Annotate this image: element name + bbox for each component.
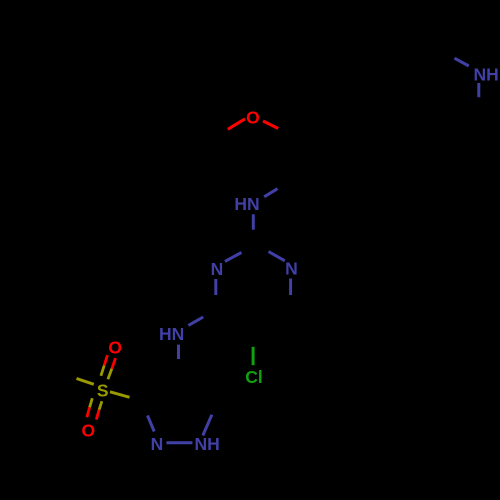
wire O-CH3 half-bond (methoxy methyl) bbox=[228, 119, 245, 130]
wire S-C3pyrazole half-bond bbox=[110, 392, 130, 398]
svg-text:N: N bbox=[151, 434, 164, 454]
wire S=O upper double bond line2 sulfur half bbox=[108, 369, 112, 379]
svg-text:N: N bbox=[285, 258, 298, 278]
wire N2-C3 half-bond (tetrahydroisoquinoline) bbox=[477, 83, 480, 97]
wire S=O lower double bond line2 sulfur half bbox=[99, 401, 102, 410]
svg-text:O: O bbox=[246, 108, 260, 128]
svg-text:NH: NH bbox=[194, 434, 219, 454]
wire S=O upper double bond line2 red half bbox=[112, 358, 116, 369]
wire N-C6pyrimidine half-bond (amino NH up-right) bbox=[188, 317, 203, 325]
svg-text:Cl: Cl bbox=[245, 367, 263, 387]
wire N2-C3 half-bond (pyrazole left) bbox=[148, 416, 155, 432]
wire S=O lower double bond line2 red half bbox=[96, 410, 99, 420]
wire C8a-N2 half-bond (tetrahydroisoquinoline) bbox=[455, 58, 469, 66]
wire S-CH3 half-bond (methylsulfonyl methyl) bbox=[77, 379, 94, 385]
wire C5-Cl half-bond bbox=[252, 347, 255, 365]
svg-text:HN: HN bbox=[234, 194, 259, 214]
wire N1-C5 half-bond (pyrazole right) bbox=[203, 415, 212, 436]
svg-text:O: O bbox=[108, 337, 122, 357]
svg-text:HN: HN bbox=[159, 324, 184, 344]
wire O-Caryl half-bond (methoxy to ring) bbox=[263, 121, 278, 129]
wire N1-C2 half-bond (pyrimidine left top) bbox=[225, 253, 242, 262]
wire S=O upper double bond line1 sulfur half bbox=[101, 366, 104, 376]
wire C2-N3 half-bond (pyrimidine right top) bbox=[269, 252, 285, 261]
wire N-C4pyrazole half-bond (amino NH down) bbox=[177, 345, 180, 359]
svg-text:N: N bbox=[211, 259, 224, 279]
svg-text:O: O bbox=[81, 420, 95, 440]
wire N1-C6 half-bond (pyrimidine left vertical) bbox=[214, 279, 217, 295]
wire N-Caryl half-bond (anilino NH up-right) bbox=[264, 189, 277, 197]
svg-text:NH: NH bbox=[474, 65, 499, 85]
svg-text:S: S bbox=[97, 381, 109, 401]
wire S=O lower double bond line1 red half bbox=[87, 407, 90, 417]
wire N3-C4 half-bond (pyrimidine right vertical) bbox=[289, 279, 292, 296]
wire N-C2pyrimidine half-bond (anilino NH down) bbox=[252, 214, 255, 229]
wire N2-N1 bond (pyrazole N-N) bbox=[166, 441, 192, 444]
wire S=O lower double bond line1 sulfur half bbox=[90, 398, 93, 407]
wire S=O upper double bond line1 red half bbox=[104, 355, 107, 365]
